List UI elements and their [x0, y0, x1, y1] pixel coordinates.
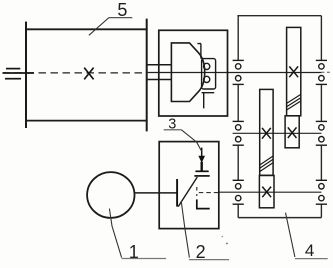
- svg-text:2: 2: [196, 242, 206, 262]
- gearbox left wall segments: [237, 16, 239, 218]
- svg-text:4: 4: [305, 241, 314, 260]
- gear L2: [259, 175, 274, 207]
- clutch lever diagonal: [178, 177, 197, 207]
- shaft 1 right stub: [321, 71, 332, 73]
- gear L1 hatch: [260, 156, 273, 172]
- shaft 2 line: [233, 132, 322, 134]
- actuator arrow thick stem: [200, 162, 202, 171]
- label 5 underline: [109, 17, 133, 19]
- label 3 leader: [181, 130, 201, 152]
- label 5 leader: [89, 18, 109, 36]
- roller block: [202, 59, 216, 89]
- actuator T-bar: [195, 170, 208, 172]
- gear L2 X: [262, 187, 271, 198]
- gear L1: [260, 89, 273, 175]
- gearbox bottom line: [238, 217, 321, 219]
- variator cone D-shape: [171, 43, 204, 102]
- coupling arm upper: [147, 64, 172, 66]
- gear R1: [287, 27, 301, 115]
- coupling arm lower: [147, 79, 172, 81]
- bearing S3 left: [233, 180, 244, 204]
- clutch top bar: [194, 175, 209, 177]
- gear R2: [285, 116, 299, 148]
- label 2 leader: [181, 201, 189, 258]
- clutch disc: [176, 179, 178, 207]
- clutch centerline dashes: [199, 192, 219, 194]
- drum 5 right wall: [146, 19, 148, 132]
- bearing S2 right: [316, 121, 327, 145]
- label 4 underline: [295, 258, 328, 260]
- gear L1 X: [262, 128, 271, 139]
- bearing S1 left: [233, 60, 244, 84]
- actuator arrow stem: [201, 148, 203, 171]
- actuator arrow head: [198, 156, 205, 163]
- bearing S1 right: [316, 60, 327, 84]
- gearbox top line: [237, 15, 321, 17]
- centerline X mark: [84, 68, 93, 80]
- drum centerline dashed: [3, 72, 147, 74]
- drum 5 top edge: [26, 28, 147, 30]
- variator box: [159, 30, 228, 116]
- speck near label 2: [226, 243, 228, 245]
- label 4 leader: [286, 213, 295, 257]
- roller lower circle: [204, 76, 210, 82]
- roller upper circle: [204, 63, 210, 69]
- clutch bottom L: [197, 199, 210, 208]
- anchor symbol at rope end: [3, 69, 35, 79]
- motor M circle: [87, 172, 134, 218]
- label 3 underline: [164, 129, 182, 131]
- label 2 underline: [189, 259, 229, 261]
- motor shaft: [134, 192, 177, 194]
- drum 5 bottom edge: [26, 120, 147, 122]
- gear R2 X: [288, 127, 297, 138]
- block top stem: [197, 44, 201, 59]
- gear R1 hatch: [287, 94, 301, 110]
- shaft 1 line: [147, 72, 322, 74]
- shaft 3 solid: [219, 191, 322, 193]
- gear R1 X: [289, 66, 298, 77]
- clutch box: [159, 142, 219, 229]
- gearbox right wall segments: [320, 16, 322, 218]
- clutch small dash marks: [196, 187, 198, 196]
- block bottom stem: [202, 93, 215, 109]
- speck near label 2 b: [222, 236, 223, 237]
- bearing S3 right: [316, 180, 327, 204]
- label 1 leader: [109, 209, 121, 258]
- label 1 underline: [122, 258, 167, 260]
- bearing S2 left: [233, 121, 244, 145]
- drum 5 left edge: [25, 22, 27, 128]
